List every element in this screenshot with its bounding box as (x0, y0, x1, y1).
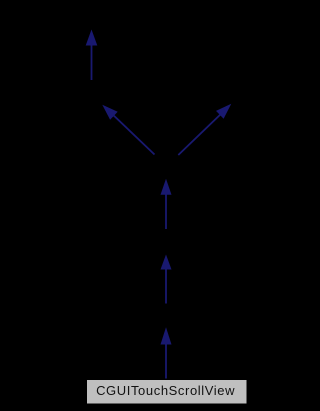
svg-text:CGUITouchScrollView: CGUITouchScrollView (96, 383, 235, 398)
